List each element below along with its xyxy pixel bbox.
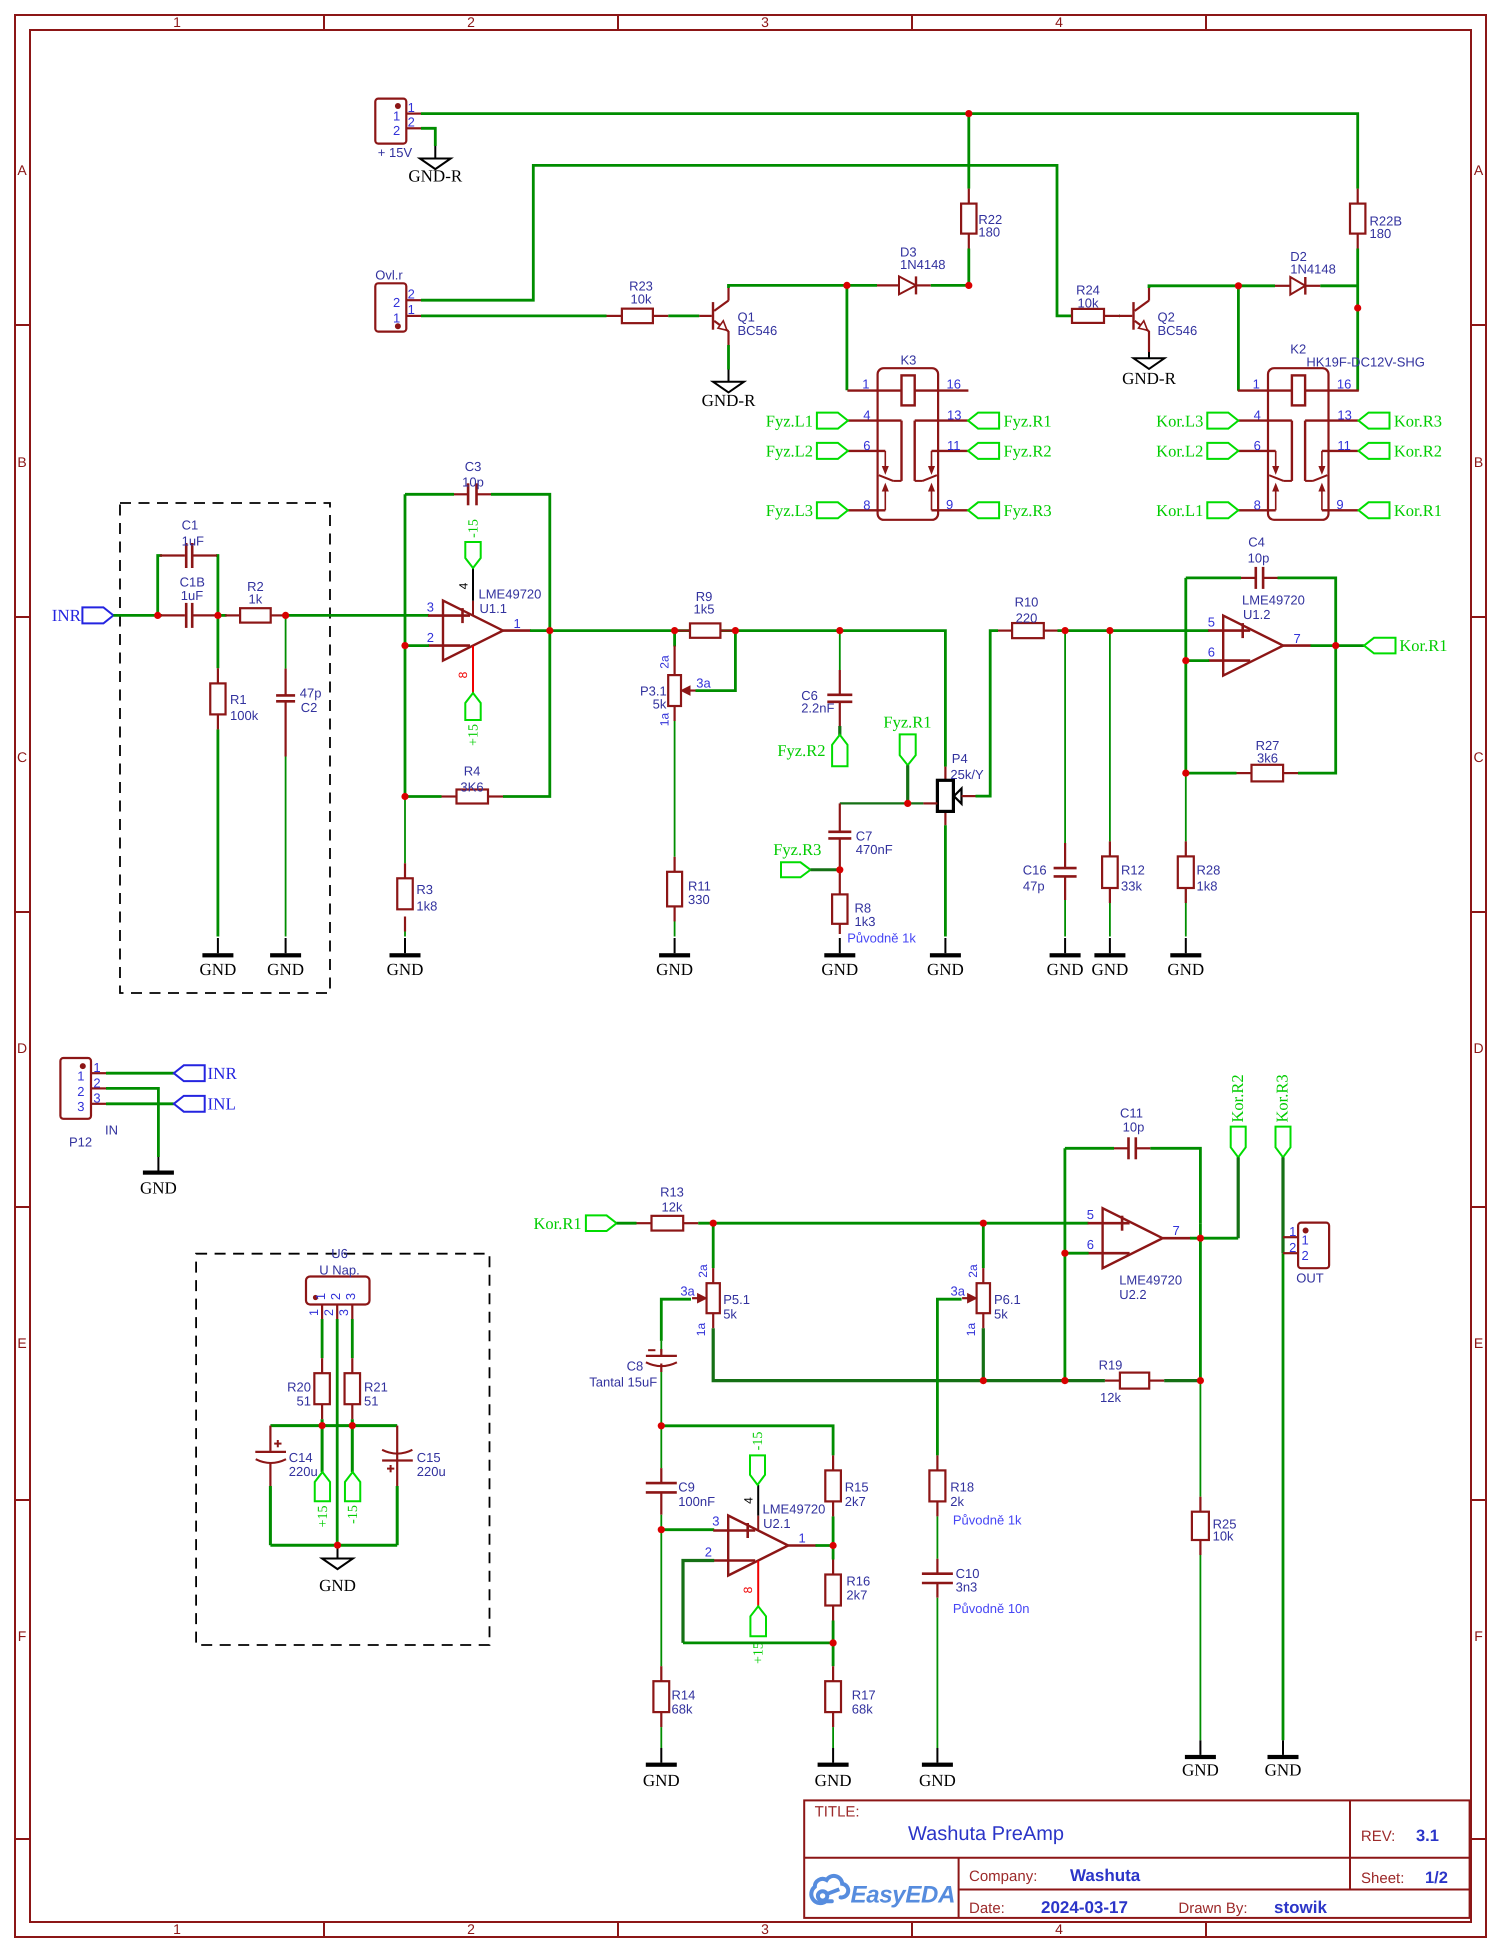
svg-text:BC546: BC546 bbox=[1158, 323, 1198, 338]
svg-text:3: 3 bbox=[93, 1091, 100, 1106]
wire Ovl.r pin1 to R23 bbox=[421, 314, 607, 317]
wire Ovl.r pin2 to R24 bbox=[421, 165, 1072, 316]
wire bus to R19 bbox=[983, 1379, 1105, 1382]
junction U2.2 out bbox=[1197, 1235, 1204, 1242]
svg-text:6: 6 bbox=[1208, 645, 1215, 660]
svg-text:Tantal 15uF: Tantal 15uF bbox=[589, 1375, 657, 1390]
svg-text:470nF: 470nF bbox=[856, 842, 893, 857]
svg-text:13: 13 bbox=[947, 408, 961, 423]
wire R3 branch bbox=[404, 797, 406, 937]
diode D2 bbox=[1275, 249, 1336, 295]
svg-text:6: 6 bbox=[863, 438, 870, 453]
svg-text:Fyz.R2: Fyz.R2 bbox=[1004, 442, 1052, 461]
svg-text:INR: INR bbox=[208, 1064, 238, 1083]
svg-text:K3: K3 bbox=[901, 353, 917, 368]
junction R1 branch bbox=[214, 612, 221, 619]
net flag Kor.R2 relay bbox=[1359, 442, 1443, 461]
junction R22B net bbox=[1354, 304, 1361, 311]
input dashed box bbox=[120, 503, 330, 993]
wire R1 branch bbox=[216, 615, 219, 936]
svg-text:3.1: 3.1 bbox=[1416, 1827, 1439, 1845]
svg-text:2k7: 2k7 bbox=[845, 1494, 866, 1509]
capacitor C1 bbox=[160, 518, 217, 569]
resistor R4 bbox=[442, 764, 504, 804]
svg-text:GND: GND bbox=[319, 1576, 356, 1595]
wire C1 loop bbox=[158, 556, 218, 616]
wire U2.2 out bbox=[1190, 1224, 1238, 1381]
svg-text:C14: C14 bbox=[289, 1450, 313, 1465]
junction R19 right bbox=[1197, 1377, 1204, 1384]
net flag Kor.R1 in bbox=[533, 1214, 616, 1233]
svg-text:1: 1 bbox=[393, 108, 400, 123]
svg-text:Fyz.L1: Fyz.L1 bbox=[766, 411, 813, 430]
svg-text:2: 2 bbox=[467, 1921, 475, 1937]
capacitor C10 bbox=[922, 1559, 980, 1598]
junction U2.1 out bbox=[830, 1542, 837, 1549]
resistor R18 bbox=[929, 1455, 974, 1516]
op-amp U2.1 bbox=[705, 1501, 826, 1575]
svg-text:IN: IN bbox=[105, 1123, 118, 1138]
junction U2.1 fb bbox=[830, 1639, 837, 1646]
resistor R1 bbox=[210, 668, 258, 729]
junction U1.2 out bbox=[1332, 642, 1339, 649]
wire C14 leg bbox=[269, 1486, 272, 1545]
capacitor C15 bbox=[382, 1426, 446, 1486]
svg-text:1: 1 bbox=[173, 1921, 181, 1937]
wire Q2 collector net bbox=[1149, 286, 1275, 288]
wire P6.1 bottom bbox=[982, 1328, 985, 1380]
svg-text:GND: GND bbox=[927, 960, 964, 979]
net flag Kor.R1 relay bbox=[1359, 501, 1443, 520]
svg-text:R19: R19 bbox=[1099, 1358, 1123, 1373]
resistor R22B bbox=[1350, 189, 1402, 249]
svg-text:Kor.R1: Kor.R1 bbox=[1394, 501, 1442, 520]
svg-text:180: 180 bbox=[978, 225, 1000, 240]
svg-text:R15: R15 bbox=[845, 1480, 869, 1495]
svg-text:100nF: 100nF bbox=[678, 1494, 715, 1509]
junction Q1 collector bbox=[843, 282, 850, 289]
svg-text:GND-R: GND-R bbox=[408, 166, 462, 185]
power flag -15 U6 bbox=[345, 1472, 361, 1524]
svg-text:68k: 68k bbox=[852, 1702, 873, 1717]
wire R27 row bbox=[1186, 646, 1336, 774]
svg-text:R10: R10 bbox=[1015, 595, 1039, 610]
wire to K3 pin1 bbox=[846, 285, 849, 390]
svg-text:U Nap.: U Nap. bbox=[319, 1263, 359, 1278]
svg-text:1/2: 1/2 bbox=[1425, 1869, 1448, 1887]
svg-text:3a: 3a bbox=[951, 1284, 966, 1299]
junction +15V/R22 bbox=[965, 110, 972, 117]
potentiometer P3.1 bbox=[640, 646, 712, 727]
op-amp U1.1 supply pins bbox=[456, 568, 473, 693]
net flag Kor.R1 out bbox=[1364, 636, 1448, 655]
svg-text:C11: C11 bbox=[1120, 1106, 1143, 1121]
svg-text:6: 6 bbox=[1087, 1237, 1094, 1252]
op-amp U2.1 supply pins bbox=[741, 1485, 758, 1607]
svg-text:1: 1 bbox=[307, 1309, 321, 1316]
resistor R21 bbox=[345, 1358, 388, 1419]
ground GND R1 bbox=[199, 938, 236, 979]
svg-text:GND: GND bbox=[387, 960, 424, 979]
net flag Kor.L3 bbox=[1156, 411, 1238, 430]
wire +15V to R22 bbox=[967, 114, 970, 286]
wire -15 flag stub bbox=[351, 1426, 354, 1472]
junction D3/R22 bbox=[965, 282, 972, 289]
wire Kor.R3 to OUT and GND bbox=[1281, 1157, 1284, 1740]
svg-text:2: 2 bbox=[427, 630, 434, 645]
svg-text:INL: INL bbox=[208, 1095, 236, 1114]
junction C16 branch bbox=[1062, 627, 1069, 634]
net flag Fyz.L3 bbox=[766, 501, 848, 520]
svg-text:-15: -15 bbox=[467, 519, 482, 538]
ground GND P12 bbox=[140, 1157, 177, 1198]
svg-text:LME49720: LME49720 bbox=[763, 1501, 826, 1516]
wire P3.1 to R11 bbox=[674, 721, 676, 937]
svg-text:16: 16 bbox=[947, 377, 961, 392]
potentiometer P4 bbox=[923, 751, 984, 825]
wire R23 to Q1 bbox=[668, 314, 699, 317]
svg-text:9: 9 bbox=[1336, 497, 1343, 512]
capacitor C1B bbox=[160, 574, 217, 628]
svg-text:A: A bbox=[17, 162, 27, 178]
svg-text:10p: 10p bbox=[1123, 1120, 1145, 1135]
net flag Fyz.R3 relay bbox=[968, 501, 1052, 520]
connector +15V bbox=[375, 99, 421, 160]
capacitor C8 bbox=[589, 1349, 677, 1390]
svg-text:4: 4 bbox=[863, 408, 870, 423]
wire to K2 pin1 bbox=[1237, 286, 1240, 391]
capacitor C7 bbox=[828, 828, 892, 869]
wire C8 node to R15 bbox=[661, 1426, 833, 1456]
wire R10 to U1.2 bbox=[1058, 629, 1210, 632]
capacitor C11 bbox=[1114, 1106, 1150, 1160]
junction P6.1 bottom bbox=[980, 1377, 987, 1384]
wire U6 pin1 bbox=[321, 1319, 324, 1358]
svg-text:Fyz.R2: Fyz.R2 bbox=[777, 741, 825, 760]
capacitor C3 bbox=[454, 459, 491, 506]
ground GND U6 bbox=[319, 1545, 356, 1595]
svg-text:U1.1: U1.1 bbox=[480, 601, 507, 616]
wire C7 branch bbox=[839, 803, 841, 831]
svg-text:+ 15V: + 15V bbox=[378, 145, 413, 160]
wire Fyz.R3 to R8 bbox=[811, 868, 840, 871]
wire Q1 emitter bbox=[727, 345, 730, 370]
wire R20 to +15 node bbox=[321, 1419, 324, 1425]
svg-text:LME49720: LME49720 bbox=[479, 587, 542, 602]
svg-text:2: 2 bbox=[328, 1293, 343, 1300]
connector P12 bbox=[60, 1058, 118, 1150]
svg-text:P4: P4 bbox=[952, 751, 968, 766]
svg-text:Drawn By:: Drawn By: bbox=[1178, 1900, 1247, 1917]
wire U6 pin3 bbox=[351, 1319, 354, 1358]
capacitor C9 bbox=[646, 1468, 715, 1515]
svg-text:Kor.L2: Kor.L2 bbox=[1156, 442, 1203, 461]
svg-text:BC546: BC546 bbox=[738, 323, 778, 338]
svg-text:F: F bbox=[18, 1628, 27, 1644]
wire +15 flag stub bbox=[321, 1426, 324, 1472]
svg-text:220u: 220u bbox=[417, 1464, 446, 1479]
svg-text:R14: R14 bbox=[672, 1688, 696, 1703]
svg-text:10p: 10p bbox=[1248, 550, 1270, 565]
wire R4 row bbox=[405, 631, 550, 797]
junction P5.1 top bbox=[710, 1220, 717, 1227]
svg-text:1: 1 bbox=[408, 100, 415, 115]
svg-text:3n3: 3n3 bbox=[956, 1580, 978, 1595]
svg-text:GND: GND bbox=[1047, 960, 1084, 979]
wire cap top bus bbox=[270, 1424, 397, 1427]
svg-text:3K6: 3K6 bbox=[460, 780, 483, 795]
svg-text:3: 3 bbox=[712, 1514, 719, 1529]
svg-text:Původně 10n: Původně 10n bbox=[953, 1601, 1030, 1616]
svg-text:GND: GND bbox=[643, 1771, 680, 1790]
potentiometer P6.1 bbox=[951, 1264, 1021, 1336]
svg-text:Ovl.r: Ovl.r bbox=[375, 268, 403, 283]
svg-text:33k: 33k bbox=[1121, 879, 1142, 894]
svg-text:R16: R16 bbox=[846, 1573, 870, 1588]
svg-text:2: 2 bbox=[1302, 1248, 1309, 1263]
svg-text:Kor.R1: Kor.R1 bbox=[533, 1214, 581, 1233]
wire C6 to Fyz.R2 bbox=[838, 726, 841, 735]
svg-text:4: 4 bbox=[1254, 408, 1261, 423]
ground GND R11 bbox=[656, 938, 693, 979]
wire P3.1 top bbox=[673, 631, 676, 647]
svg-text:OUT: OUT bbox=[1296, 1271, 1324, 1286]
svg-text:R1: R1 bbox=[230, 692, 247, 707]
resistor R11 bbox=[667, 857, 711, 922]
resistor R24 bbox=[1072, 283, 1119, 323]
svg-text:2: 2 bbox=[467, 14, 475, 30]
wire U2.1 pin2 feedback bbox=[683, 1561, 833, 1643]
svg-text:12k: 12k bbox=[662, 1200, 683, 1215]
wire D3 to R22 node bbox=[931, 284, 969, 287]
op-amp U1.1 bbox=[427, 587, 542, 661]
ground GND R28 bbox=[1167, 938, 1204, 979]
wire R15 to out node bbox=[832, 1516, 835, 1559]
svg-text:C9: C9 bbox=[678, 1480, 695, 1495]
capacitor C6 bbox=[801, 670, 852, 726]
wire R19 to junction bbox=[1164, 1379, 1200, 1382]
power flag -15 U2.1 bbox=[750, 1432, 766, 1485]
svg-text:3a: 3a bbox=[696, 676, 711, 691]
capacitor C4 bbox=[1241, 535, 1278, 589]
svg-text:stowik: stowik bbox=[1274, 1898, 1327, 1917]
svg-text:2: 2 bbox=[322, 1309, 336, 1316]
svg-text:220u: 220u bbox=[289, 1464, 318, 1479]
svg-text:1uF: 1uF bbox=[181, 588, 203, 603]
svg-text:U6: U6 bbox=[331, 1246, 348, 1261]
wire D2 to R22B net bbox=[1320, 284, 1357, 287]
svg-text:2: 2 bbox=[393, 295, 400, 310]
resistor R17 bbox=[825, 1666, 875, 1727]
svg-text:3: 3 bbox=[761, 14, 769, 30]
wire U2.1 pin3 bbox=[661, 1528, 714, 1531]
svg-text:2: 2 bbox=[408, 286, 415, 301]
net flag Fyz.L1 bbox=[766, 411, 848, 430]
svg-text:U1.2: U1.2 bbox=[1243, 607, 1270, 622]
wire C10 to GND bbox=[936, 1598, 938, 1748]
svg-text:Kor.R3: Kor.R3 bbox=[1273, 1074, 1292, 1122]
junction U1.2 pin6 bbox=[1182, 657, 1189, 664]
resistor R25 bbox=[1192, 1497, 1237, 1555]
wire Kor.R2 bbox=[1237, 1157, 1240, 1238]
svg-text:10p: 10p bbox=[462, 475, 484, 490]
svg-text:7: 7 bbox=[1173, 1223, 1180, 1238]
svg-text:GND-R: GND-R bbox=[1122, 369, 1176, 388]
svg-text:D: D bbox=[17, 1040, 27, 1056]
resistor R27 bbox=[1237, 738, 1299, 781]
svg-text:Kor.L1: Kor.L1 bbox=[1156, 501, 1203, 520]
svg-text:51: 51 bbox=[297, 1394, 311, 1409]
svg-text:1a: 1a bbox=[694, 1323, 708, 1337]
svg-text:5k: 5k bbox=[723, 1306, 737, 1321]
wire R16 to fb node bbox=[832, 1621, 835, 1643]
wire P4 wiper to R10 bbox=[976, 631, 999, 797]
svg-text:1a: 1a bbox=[964, 1323, 978, 1337]
svg-text:D: D bbox=[1473, 1040, 1483, 1056]
resistor R23 bbox=[607, 279, 669, 324]
svg-text:R18: R18 bbox=[950, 1480, 974, 1495]
junction R9 right bbox=[732, 627, 739, 634]
net flag Kor.R3 relay bbox=[1359, 411, 1443, 430]
svg-text:EasyEDA: EasyEDA bbox=[851, 1882, 956, 1909]
svg-text:U2.1: U2.1 bbox=[763, 1516, 790, 1531]
svg-text:R28: R28 bbox=[1197, 863, 1221, 878]
resistor R20 bbox=[287, 1358, 330, 1419]
svg-text:Sheet:: Sheet: bbox=[1361, 1870, 1404, 1887]
wire R25 branch bbox=[1199, 1381, 1201, 1741]
junction Q2 collector bbox=[1235, 282, 1242, 289]
svg-text:Fyz.R3: Fyz.R3 bbox=[1004, 501, 1052, 520]
junction Fyz.R1 bbox=[904, 800, 911, 807]
svg-text:Kor.R3: Kor.R3 bbox=[1394, 411, 1442, 430]
resistor R14 bbox=[653, 1666, 695, 1727]
svg-text:GND: GND bbox=[919, 1771, 956, 1790]
ground GND-R Q2 bbox=[1122, 352, 1176, 388]
svg-text:Původně 1k: Původně 1k bbox=[953, 1513, 1022, 1528]
wire bottom bus bbox=[270, 1544, 397, 1547]
diode D3 bbox=[877, 245, 946, 295]
wire R21 to -15 node bbox=[351, 1419, 354, 1425]
capacitor C16 bbox=[1023, 843, 1077, 900]
svg-text:180: 180 bbox=[1370, 226, 1392, 241]
ground GND C2 bbox=[267, 938, 304, 979]
svg-text:C4: C4 bbox=[1248, 535, 1265, 550]
svg-text:1: 1 bbox=[77, 1068, 84, 1083]
wire P4 bottom to GND bbox=[944, 825, 947, 936]
svg-text:5k: 5k bbox=[994, 1306, 1008, 1321]
svg-text:R17: R17 bbox=[852, 1688, 876, 1703]
svg-text:Fyz.L3: Fyz.L3 bbox=[766, 501, 813, 520]
wire P12 pin2 to GND bbox=[106, 1088, 158, 1157]
svg-text:Fyz.R3: Fyz.R3 bbox=[773, 840, 821, 859]
ground GND R8 bbox=[821, 938, 858, 979]
svg-text:Původně 1k: Původně 1k bbox=[847, 931, 916, 946]
svg-text:HK19F-DC12V-SHG: HK19F-DC12V-SHG bbox=[1306, 355, 1424, 370]
wire P12 pin1 to INR bbox=[106, 1072, 174, 1075]
resistor R15 bbox=[825, 1455, 868, 1516]
svg-text:2: 2 bbox=[1289, 1240, 1296, 1255]
svg-text:Company:: Company: bbox=[969, 1868, 1037, 1885]
label Puvodne 10n bbox=[953, 1601, 1030, 1616]
net flag Fyz.L2 bbox=[766, 442, 848, 461]
svg-text:GND: GND bbox=[1182, 1761, 1219, 1780]
net flag Fyz.R1 bbox=[883, 713, 931, 766]
svg-text:3: 3 bbox=[77, 1099, 84, 1114]
svg-text:1N4148: 1N4148 bbox=[900, 257, 946, 272]
junction R12 branch bbox=[1106, 627, 1113, 634]
resistor R28 bbox=[1178, 841, 1221, 903]
svg-text:12k: 12k bbox=[1100, 1390, 1121, 1405]
svg-text:1: 1 bbox=[514, 616, 521, 631]
svg-text:100k: 100k bbox=[230, 708, 259, 723]
junction Fyz.R3/R8 bbox=[836, 866, 843, 873]
svg-text:INR: INR bbox=[52, 606, 82, 625]
potentiometer P5.1 bbox=[680, 1264, 750, 1336]
svg-text:2k: 2k bbox=[950, 1494, 964, 1509]
svg-text:GND: GND bbox=[1167, 960, 1204, 979]
wire fb to R17 bbox=[832, 1643, 835, 1666]
svg-text:Fyz.L2: Fyz.L2 bbox=[766, 442, 813, 461]
ground GND R25 bbox=[1182, 1740, 1219, 1779]
svg-text:R3: R3 bbox=[416, 882, 433, 897]
net flag Fyz.R2 relay bbox=[968, 442, 1052, 461]
svg-text:7: 7 bbox=[1294, 631, 1301, 646]
svg-text:47p: 47p bbox=[1023, 879, 1045, 894]
wire main line R9 row bbox=[675, 631, 946, 767]
wire R24 to Q2 bbox=[1118, 314, 1122, 317]
svg-text:GND: GND bbox=[815, 1771, 852, 1790]
svg-text:6: 6 bbox=[1254, 438, 1261, 453]
wire P5.1 bottom bbox=[713, 1328, 983, 1380]
svg-text:2.2nF: 2.2nF bbox=[801, 701, 834, 716]
svg-text:4: 4 bbox=[1055, 14, 1063, 30]
svg-text:1uF: 1uF bbox=[182, 533, 204, 548]
wire U2.1 out bbox=[816, 1544, 834, 1547]
junction -15 node bbox=[349, 1422, 356, 1429]
svg-text:2a: 2a bbox=[657, 655, 671, 669]
svg-text:8: 8 bbox=[1254, 497, 1261, 512]
junction C1 branch bbox=[154, 612, 161, 619]
wire R12 branch bbox=[1109, 631, 1111, 937]
svg-text:1k8: 1k8 bbox=[1197, 879, 1218, 894]
svg-text:B: B bbox=[17, 454, 26, 470]
wire U2.2 pin6 net bbox=[1065, 1148, 1201, 1380]
net flag Kor.R2 top bbox=[1228, 1074, 1247, 1157]
wire C16 branch bbox=[1064, 631, 1066, 937]
svg-text:5: 5 bbox=[1087, 1207, 1094, 1222]
net flag Kor.L2 bbox=[1156, 442, 1238, 461]
junction +15 node bbox=[319, 1422, 326, 1429]
svg-text:2: 2 bbox=[93, 1075, 100, 1090]
junction U2.2 pin6 bbox=[1061, 1250, 1068, 1257]
wire Kor.R1 to R13 bbox=[617, 1222, 637, 1225]
ground GND P4 bbox=[927, 938, 964, 979]
ground GND OUT bbox=[1265, 1740, 1302, 1779]
svg-text:3a: 3a bbox=[680, 1284, 695, 1299]
regulator U6 bbox=[306, 1246, 370, 1319]
svg-text:Kor.R2: Kor.R2 bbox=[1394, 442, 1442, 461]
svg-text:1: 1 bbox=[313, 1293, 328, 1300]
svg-text:R13: R13 bbox=[660, 1185, 684, 1200]
resistor R8 bbox=[832, 870, 875, 934]
svg-text:2a: 2a bbox=[696, 1264, 710, 1278]
port INR bbox=[52, 606, 114, 625]
capacitor C2 bbox=[276, 669, 321, 757]
svg-text:GND: GND bbox=[1265, 1761, 1302, 1780]
net flag Fyz.R2 bbox=[777, 735, 847, 766]
op-amp U1.2 bbox=[1208, 593, 1311, 676]
svg-text:3: 3 bbox=[761, 1921, 769, 1937]
